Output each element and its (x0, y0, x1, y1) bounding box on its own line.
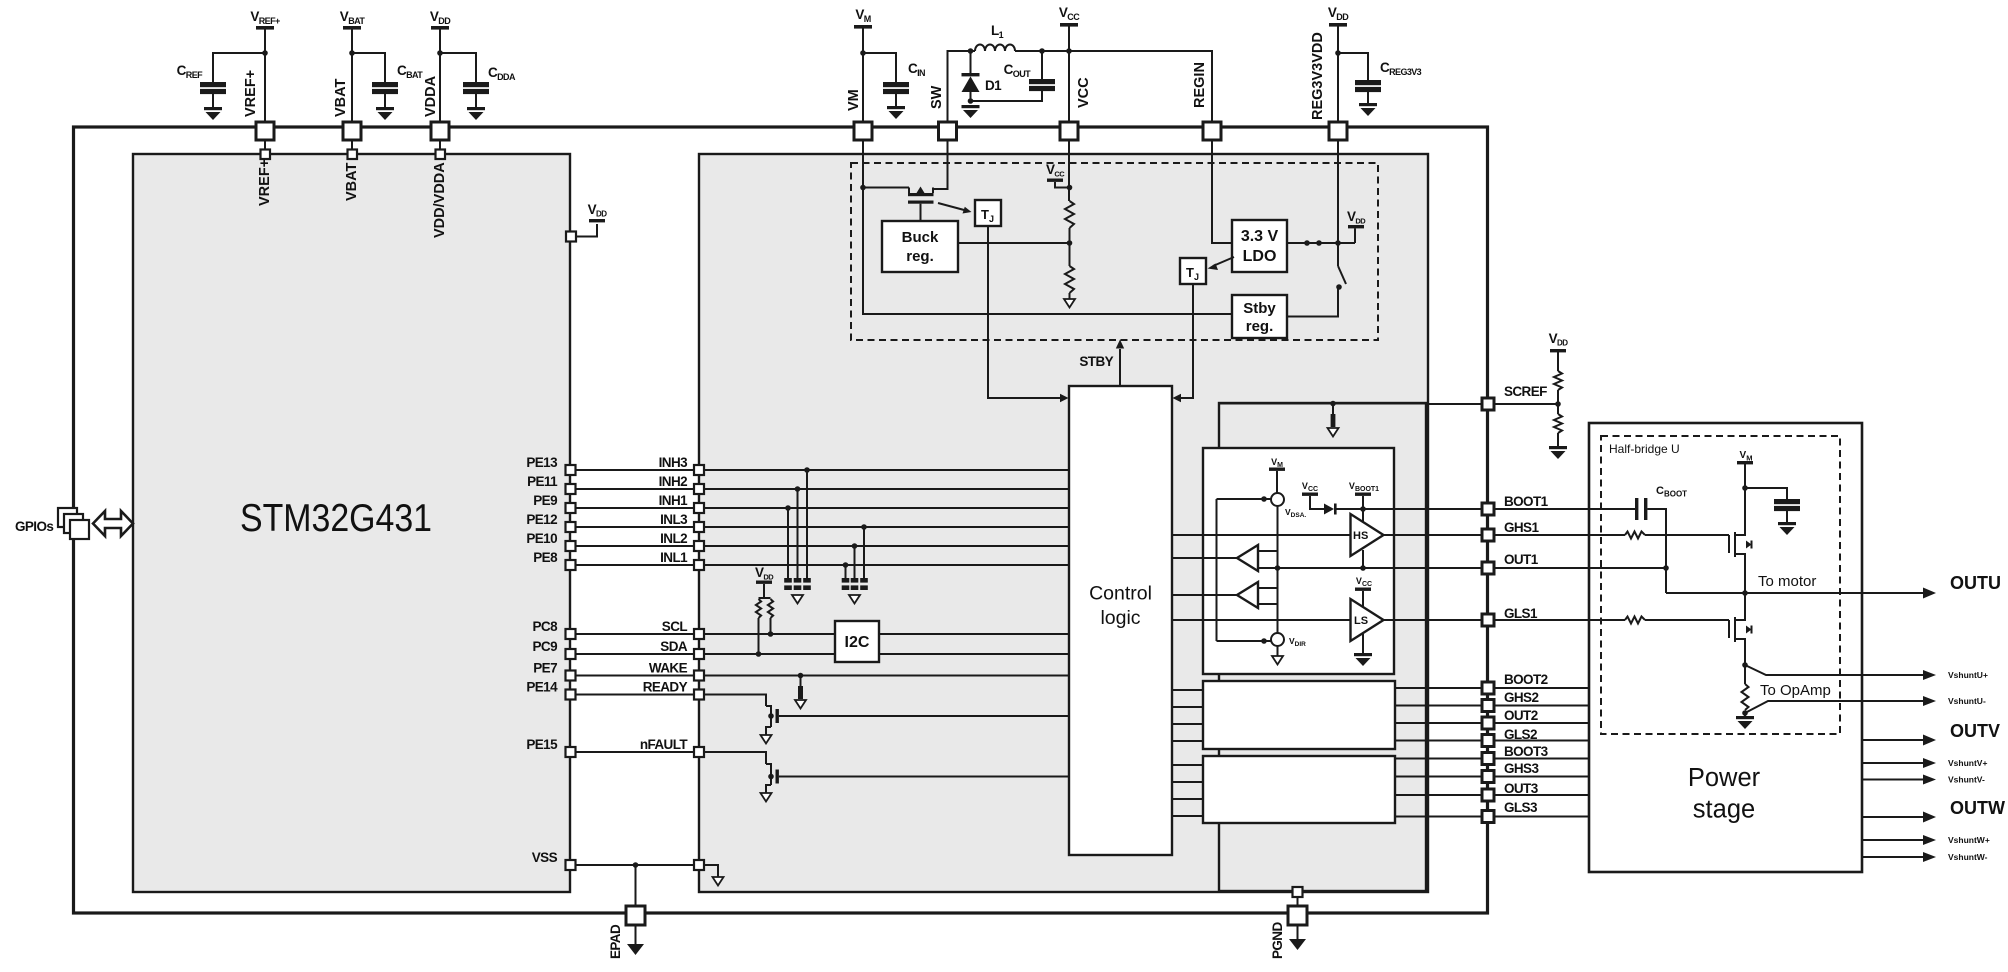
node junction VDD/CREG3V3 (1335, 50, 1341, 56)
svg-text:logic: logic (1100, 607, 1140, 629)
wire VM to Stby reg (863, 188, 1232, 315)
svg-text:Buck: Buck (902, 229, 939, 246)
pad VBAT (343, 122, 361, 140)
svg-text:OUT1: OUT1 (1504, 552, 1539, 567)
resistor divider top (1065, 201, 1074, 228)
pin READY (694, 690, 704, 700)
ground open arrow VSS (713, 877, 724, 886)
wire CREG3V3 to ground (1367, 92, 1369, 103)
pin VSS on driver (694, 860, 704, 870)
pin nFAULT (694, 747, 704, 757)
signal STBY arrow (1119, 349, 1121, 386)
svg-text:stage: stage (1693, 796, 1755, 824)
node VDD supply (REG3V3) (1328, 5, 1349, 27)
svg-text:VshuntV-: VshuntV- (1948, 775, 1985, 785)
node chain/OUT1 junction (1275, 565, 1281, 571)
wire SCL (576, 633, 695, 635)
wire GHS2 to power stage (1494, 705, 1589, 707)
pin PC8 (566, 629, 576, 639)
current source VDIR (1271, 633, 1284, 646)
resistor GLS1 gate (1625, 617, 1645, 624)
svg-text:PE11: PE11 (527, 474, 558, 489)
node junction VBAT/CBAT (349, 50, 355, 56)
wire BOOT3 to power stage (1494, 758, 1589, 760)
block I2C (835, 621, 879, 662)
wire EPAD (635, 865, 637, 906)
wire OUTU (1666, 592, 1926, 594)
capacitor COUT (971, 51, 1056, 101)
arrow VshuntU+ (1923, 670, 1936, 680)
node VBAT supply (340, 9, 366, 30)
amplifier LS (1351, 599, 1384, 641)
wire to gnd arrow (1069, 293, 1071, 299)
wire VDD tap stem (1354, 228, 1356, 243)
svg-text:BOOT1: BOOT1 (1504, 494, 1549, 509)
svg-text:GPIOs: GPIOs (15, 519, 53, 534)
wires driver2 outputs (1395, 687, 1482, 689)
svg-text:PE7: PE7 (533, 661, 557, 676)
wire PGND (1297, 897, 1299, 906)
ground under CBAT (376, 107, 394, 120)
INH pull-down stub from INH2 (795, 486, 801, 492)
pin PE7 (566, 671, 576, 681)
svg-text:VREF+: VREF+ (257, 159, 273, 206)
wire VM to pass transistor (863, 187, 909, 189)
node D1 anode junction (968, 98, 974, 104)
INL pull-down stub from INL2 (852, 543, 858, 549)
pin INL2 (694, 541, 704, 551)
svg-text:VREF+: VREF+ (243, 70, 259, 117)
pin VDD of STM32 (566, 232, 576, 242)
ground arrow EPAD (627, 944, 644, 955)
WAKE pull-down resistor (798, 673, 804, 679)
wire L1 to VCC node (1015, 50, 1069, 52)
svg-text:PC8: PC8 (533, 619, 559, 634)
wire shunt to ground (1744, 711, 1746, 716)
svg-text:OUTU: OUTU (1950, 573, 2001, 593)
node VCC divider junction (1067, 185, 1073, 191)
capacitor VM bypass (1774, 499, 1800, 511)
comparator 2 (1237, 582, 1258, 608)
node VM junction (860, 185, 866, 191)
svg-text:PE9: PE9 (533, 493, 557, 508)
wire VshuntW- (1862, 856, 1926, 858)
pin GLS2 (1482, 735, 1494, 747)
wire OUTW (1862, 816, 1926, 818)
diode bootstrap (1324, 504, 1334, 515)
wires control to driver3 (1172, 764, 1203, 766)
svg-text:VshuntU-: VshuntU- (1948, 696, 1986, 706)
svg-text:PE15: PE15 (526, 737, 558, 752)
pin OUT3 (1482, 789, 1494, 801)
svg-text:PE8: PE8 (533, 550, 558, 565)
svg-text:BOOT2: BOOT2 (1504, 672, 1548, 687)
pin OUT1 (1482, 562, 1494, 574)
svg-text:INL1: INL1 (660, 550, 688, 565)
block 3.3V LDO (1232, 220, 1287, 272)
wire diode to BOOT1 (1336, 508, 1482, 510)
wire VCC stem LS (1362, 591, 1364, 607)
svg-text:VM: VM (846, 89, 862, 111)
wire BOOT2 to power stage (1494, 687, 1589, 689)
wire CDDA to ground (475, 94, 477, 107)
ground open arrow divider (1064, 299, 1075, 308)
pin VREF+ on STM32 (261, 150, 271, 160)
wire pad to pin VDDA (439, 140, 441, 150)
svg-text:PC9: PC9 (533, 639, 558, 654)
ground open arrow INH group (792, 595, 803, 604)
svg-text:STBY: STBY (1079, 354, 1113, 369)
node OUT junction (1742, 590, 1748, 596)
INL pull-down stub from INL3 (861, 524, 867, 530)
pin INH2 (694, 484, 704, 494)
svg-text:VBAT: VBAT (333, 78, 349, 117)
resistor pull-up SCL (768, 599, 773, 618)
svg-text:LDO: LDO (1243, 248, 1277, 265)
svg-text:SCREF: SCREF (1504, 384, 1547, 399)
resistor divider bottom (1065, 266, 1074, 293)
wire VshuntW+ (1862, 839, 1926, 841)
svg-text:VshuntW+: VshuntW+ (1948, 835, 1990, 845)
node junction VREF+/CREF (262, 50, 268, 56)
wire CBAT to ground (384, 94, 386, 107)
pin BOOT3 (1482, 753, 1494, 765)
node VREF+ supply (250, 9, 280, 30)
pin BOOT1 (1482, 503, 1494, 515)
svg-text:Power: Power (1688, 764, 1761, 792)
svg-text:GHS2: GHS2 (1504, 690, 1538, 705)
wire LS input (1172, 619, 1351, 621)
node junction VDDA/CDDA (437, 50, 443, 56)
svg-text:To OpAmp: To OpAmp (1760, 682, 1831, 699)
wire pad to pin VREF+ (264, 140, 266, 150)
wire VSS (576, 864, 695, 866)
svg-text:INH1: INH1 (659, 493, 688, 508)
capacitor CREG3V3 (1355, 60, 1422, 92)
amplifier HS (1351, 514, 1384, 556)
pin PE15 (566, 747, 576, 757)
pin PE14 (566, 690, 576, 700)
node shunt bottom junction (1742, 710, 1748, 716)
pin PE9 (566, 503, 576, 513)
pin SCREF (1482, 398, 1494, 410)
wire nFAULT (576, 751, 695, 753)
wire GHS1 (1494, 534, 1625, 536)
block Power stage (1589, 423, 1862, 872)
wire EPAD to ground (635, 925, 637, 945)
svg-text:REGIN: REGIN (1192, 62, 1208, 108)
node VDD tap (588, 202, 608, 222)
wire LS source to shunt (1744, 648, 1746, 684)
wire comp1 output to control logic (1172, 557, 1237, 559)
wire SCREF to external divider (1494, 403, 1558, 405)
half-bridge U dashed box (1601, 436, 1840, 734)
pin VSS (566, 860, 576, 870)
pin OUT2 (1482, 717, 1494, 729)
wire GLS2 to power stage (1494, 740, 1589, 742)
ground under SCREF divider (1549, 446, 1567, 459)
wire VDD to pull-ups (763, 584, 765, 598)
wire to CREG3V3 (1338, 53, 1368, 80)
wire VDD rail (1337, 26, 1339, 122)
ground open arrow nFAULT (761, 793, 772, 802)
resistor shunt (1742, 684, 1749, 710)
svg-text:PE10: PE10 (526, 531, 557, 546)
wire to CIN (863, 53, 896, 82)
svg-text:PE13: PE13 (526, 455, 558, 470)
wires control to driver2 (1172, 689, 1203, 691)
wire GLS3 to power stage (1494, 816, 1589, 818)
pad SW (939, 122, 957, 140)
block TJ1 (975, 200, 1001, 226)
pin VDDA on STM32 (436, 150, 446, 160)
wire INL2 (576, 545, 695, 547)
pin INH3 (694, 465, 704, 475)
capacitor CDDA (463, 65, 516, 94)
ground under D1 (962, 105, 980, 118)
wire INH1 (576, 507, 695, 509)
svg-text:GLS3: GLS3 (1504, 800, 1538, 815)
current source VDSA (1271, 493, 1284, 506)
svg-text:OUT2: OUT2 (1504, 708, 1538, 723)
wires driver3 outputs (1395, 758, 1482, 760)
svg-text:VBAT: VBAT (344, 162, 360, 201)
wire VDSA chain (1277, 506, 1279, 633)
wire BOOT1 into half-bridge (1494, 508, 1635, 510)
svg-text:REG3V3VDD: REG3V3VDD (1310, 32, 1326, 120)
node shunt top junction (1742, 662, 1748, 668)
wire HS input (1172, 534, 1351, 536)
wire pad to pin VBAT (351, 140, 353, 150)
svg-text:STM32G431: STM32G431 (240, 497, 432, 540)
wire middle node (1069, 228, 1071, 266)
wire OUT1 (1494, 567, 1666, 569)
ground under CREG3V3 (1359, 103, 1377, 116)
inductor L1 (975, 23, 1015, 51)
wire OUTV (1862, 739, 1926, 741)
svg-text:GHS1: GHS1 (1504, 520, 1539, 535)
wire VCC rail (1068, 26, 1070, 122)
wire READY (576, 694, 695, 696)
svg-text:EPAD: EPAD (608, 924, 623, 959)
wire to CREF (213, 53, 265, 82)
pin INL1 (694, 560, 704, 570)
wire VCC divider (1068, 140, 1070, 201)
node SCREF divider junction (1555, 401, 1561, 407)
transistor READY open-drain (766, 706, 1069, 735)
wire INL1 (576, 564, 695, 566)
svg-text:reg.: reg. (906, 248, 934, 265)
wire cap to gnd (1786, 511, 1788, 522)
pad VREF+ (256, 122, 274, 140)
node VCC junction (1066, 48, 1072, 54)
wire to bypass cap (1745, 488, 1787, 499)
ground open arrow INL group (849, 595, 860, 604)
switch to Stby reg (1337, 243, 1339, 266)
wire feedback to Buck reg (958, 242, 1070, 244)
ground under LS (1354, 653, 1372, 666)
ground arrow PGND (1289, 939, 1306, 950)
pad VCC (1060, 122, 1078, 140)
ground under CDDA (467, 107, 485, 120)
arrow transistor to TJ (938, 203, 966, 211)
comparator 1 (1237, 545, 1258, 571)
ground under CIN (887, 106, 905, 119)
pin PE8 (566, 560, 576, 570)
capacitor CBOOT (1635, 498, 1638, 520)
svg-text:INH2: INH2 (659, 474, 687, 489)
wire comp2 inputs (1258, 587, 1278, 589)
arrow LDO to TJ2 (1213, 257, 1234, 266)
svg-text:INH3: INH3 (659, 455, 688, 470)
svg-text:I2C: I2C (845, 634, 870, 651)
wire VshuntU- (1745, 701, 1926, 713)
wire rail to VDIR (1217, 640, 1272, 642)
wire SDA (576, 653, 695, 655)
resistor SCREF lower (1557, 390, 1559, 414)
node feedback junction (1067, 240, 1073, 246)
GPIOs bidirectional arrow (93, 511, 133, 536)
pin GHS2 (1482, 700, 1494, 712)
gate-driver gray sub-block (1219, 403, 1426, 891)
pin WAKE (694, 671, 704, 681)
wire HS output GHS1 (1384, 534, 1483, 536)
pin BOOT2 (1482, 682, 1494, 694)
arrow OUTU (1923, 588, 1936, 599)
wire LDO output to REG3V3VDD (1287, 242, 1355, 244)
node junction VM/CIN (860, 50, 866, 56)
svg-text:PE14: PE14 (526, 680, 558, 695)
STM32G431 block (133, 154, 570, 892)
svg-text:Stby: Stby (1243, 300, 1276, 317)
wire WAKE (576, 675, 695, 677)
svg-text:OUTV: OUTV (1950, 721, 2000, 741)
svg-text:To motor: To motor (1758, 573, 1816, 590)
transistor buck PMOS (908, 187, 934, 222)
wire VBOOT1 stem (1362, 496, 1364, 522)
node VM supply (854, 7, 872, 29)
wire VREF+ rail (264, 29, 266, 122)
resistor pull-up SDA (756, 599, 761, 618)
pad REGIN (1203, 122, 1221, 140)
node VDD supply (VDDA) (430, 9, 451, 30)
wire SW into PM block (933, 140, 948, 189)
pin SDA (694, 649, 704, 659)
block Buck reg. (882, 221, 958, 272)
block gate driver 1 detail (1203, 448, 1394, 674)
wire SW up to buck node (948, 51, 976, 122)
svg-text:BOOT3: BOOT3 (1504, 744, 1549, 759)
wire to ground (1557, 433, 1559, 446)
node VCC supply (1059, 5, 1080, 27)
wire CIN to ground (895, 94, 897, 106)
svg-text:3.3 V: 3.3 V (1241, 228, 1279, 245)
svg-text:Half-bridge U: Half-bridge U (1609, 442, 1680, 456)
power management dashed box (851, 163, 1378, 340)
wire OUT2 to power stage (1494, 722, 1589, 724)
svg-text:HS: HS (1353, 530, 1368, 542)
wire comp1 inputs (1258, 550, 1278, 552)
node VM/cap junction (1742, 485, 1748, 491)
wire HS to OUT1 (1362, 550, 1364, 568)
capacitor CIN (883, 61, 925, 94)
pin VBAT on STM32 (348, 150, 358, 160)
svg-text:PE12: PE12 (526, 512, 557, 527)
pad PGND (1288, 906, 1307, 925)
svg-text:VDD/VDDA: VDD/VDDA (432, 162, 448, 238)
wire TJ2 to control logic (1178, 284, 1193, 398)
diode D1 (962, 51, 1003, 101)
block TJ2 (1180, 258, 1206, 284)
wire VshuntV+ (1862, 762, 1926, 764)
svg-text:reg.: reg. (1246, 318, 1274, 335)
wire GHS3 to power stage (1494, 776, 1589, 778)
pin PC9 (566, 649, 576, 659)
pin SCL (694, 629, 704, 639)
pin PE10 (566, 541, 576, 551)
wire VSS hook to ground (704, 865, 718, 877)
pin PE11 (566, 484, 576, 494)
svg-text:SDA: SDA (660, 639, 688, 654)
svg-text:READY: READY (643, 680, 688, 695)
svg-text:OUTW: OUTW (1950, 798, 2005, 818)
resistor GHS1 gate (1625, 532, 1645, 539)
capacitor CBAT (372, 63, 423, 94)
wire OUT3 to power stage (1494, 794, 1589, 796)
wire VCC tap (1055, 182, 1070, 188)
svg-text:LS: LS (1354, 615, 1368, 627)
ground open arrow VDIR (1272, 656, 1283, 665)
svg-text:PGND: PGND (1270, 922, 1285, 959)
pin PE12 (566, 522, 576, 532)
INH pull-down stub from INH3 (804, 467, 810, 473)
svg-text:nFAULT: nFAULT (640, 737, 688, 752)
wire CREF to ground (212, 94, 214, 107)
wire VM rail (862, 28, 864, 122)
pin PGND on driver (1293, 887, 1303, 897)
wire REG3V3VDD down (1337, 140, 1339, 243)
pad REG3V3VDD (1329, 122, 1347, 140)
pin INL3 (694, 522, 704, 532)
wire resistor to LS gate (1645, 619, 1729, 621)
svg-text:GLS1: GLS1 (1504, 606, 1538, 621)
wire VshuntU+ (1745, 665, 1926, 675)
IC outer boundary (74, 127, 1488, 913)
node arrows on LDO output (1304, 240, 1310, 246)
transistor nFAULT open-drain (766, 764, 1069, 793)
wire to CBAT (352, 53, 385, 82)
wire VDIR to gnd (1277, 646, 1279, 656)
pin INH1 (694, 503, 704, 513)
svg-text:GHS3: GHS3 (1504, 761, 1539, 776)
pad VDDA (431, 122, 449, 140)
wire VshuntV- (1862, 779, 1926, 781)
svg-text:SCL: SCL (662, 619, 688, 634)
svg-text:D1: D1 (985, 78, 1002, 93)
block Stby reg. (1232, 295, 1287, 338)
svg-text:SW: SW (929, 85, 945, 109)
svg-text:WAKE: WAKE (649, 661, 688, 676)
node L1/COUT junction (1039, 48, 1045, 54)
resistor SCREF upper (1557, 352, 1559, 371)
pin GHS3 (1482, 771, 1494, 783)
transistor high-side MOSFET (1729, 528, 1752, 563)
node OUT1/CBOOT junction (1663, 565, 1669, 571)
ground under shunt (1736, 716, 1754, 729)
pin PE13 (566, 465, 576, 475)
svg-text:VDDA: VDDA (423, 75, 439, 117)
wire INL3 (576, 526, 695, 528)
